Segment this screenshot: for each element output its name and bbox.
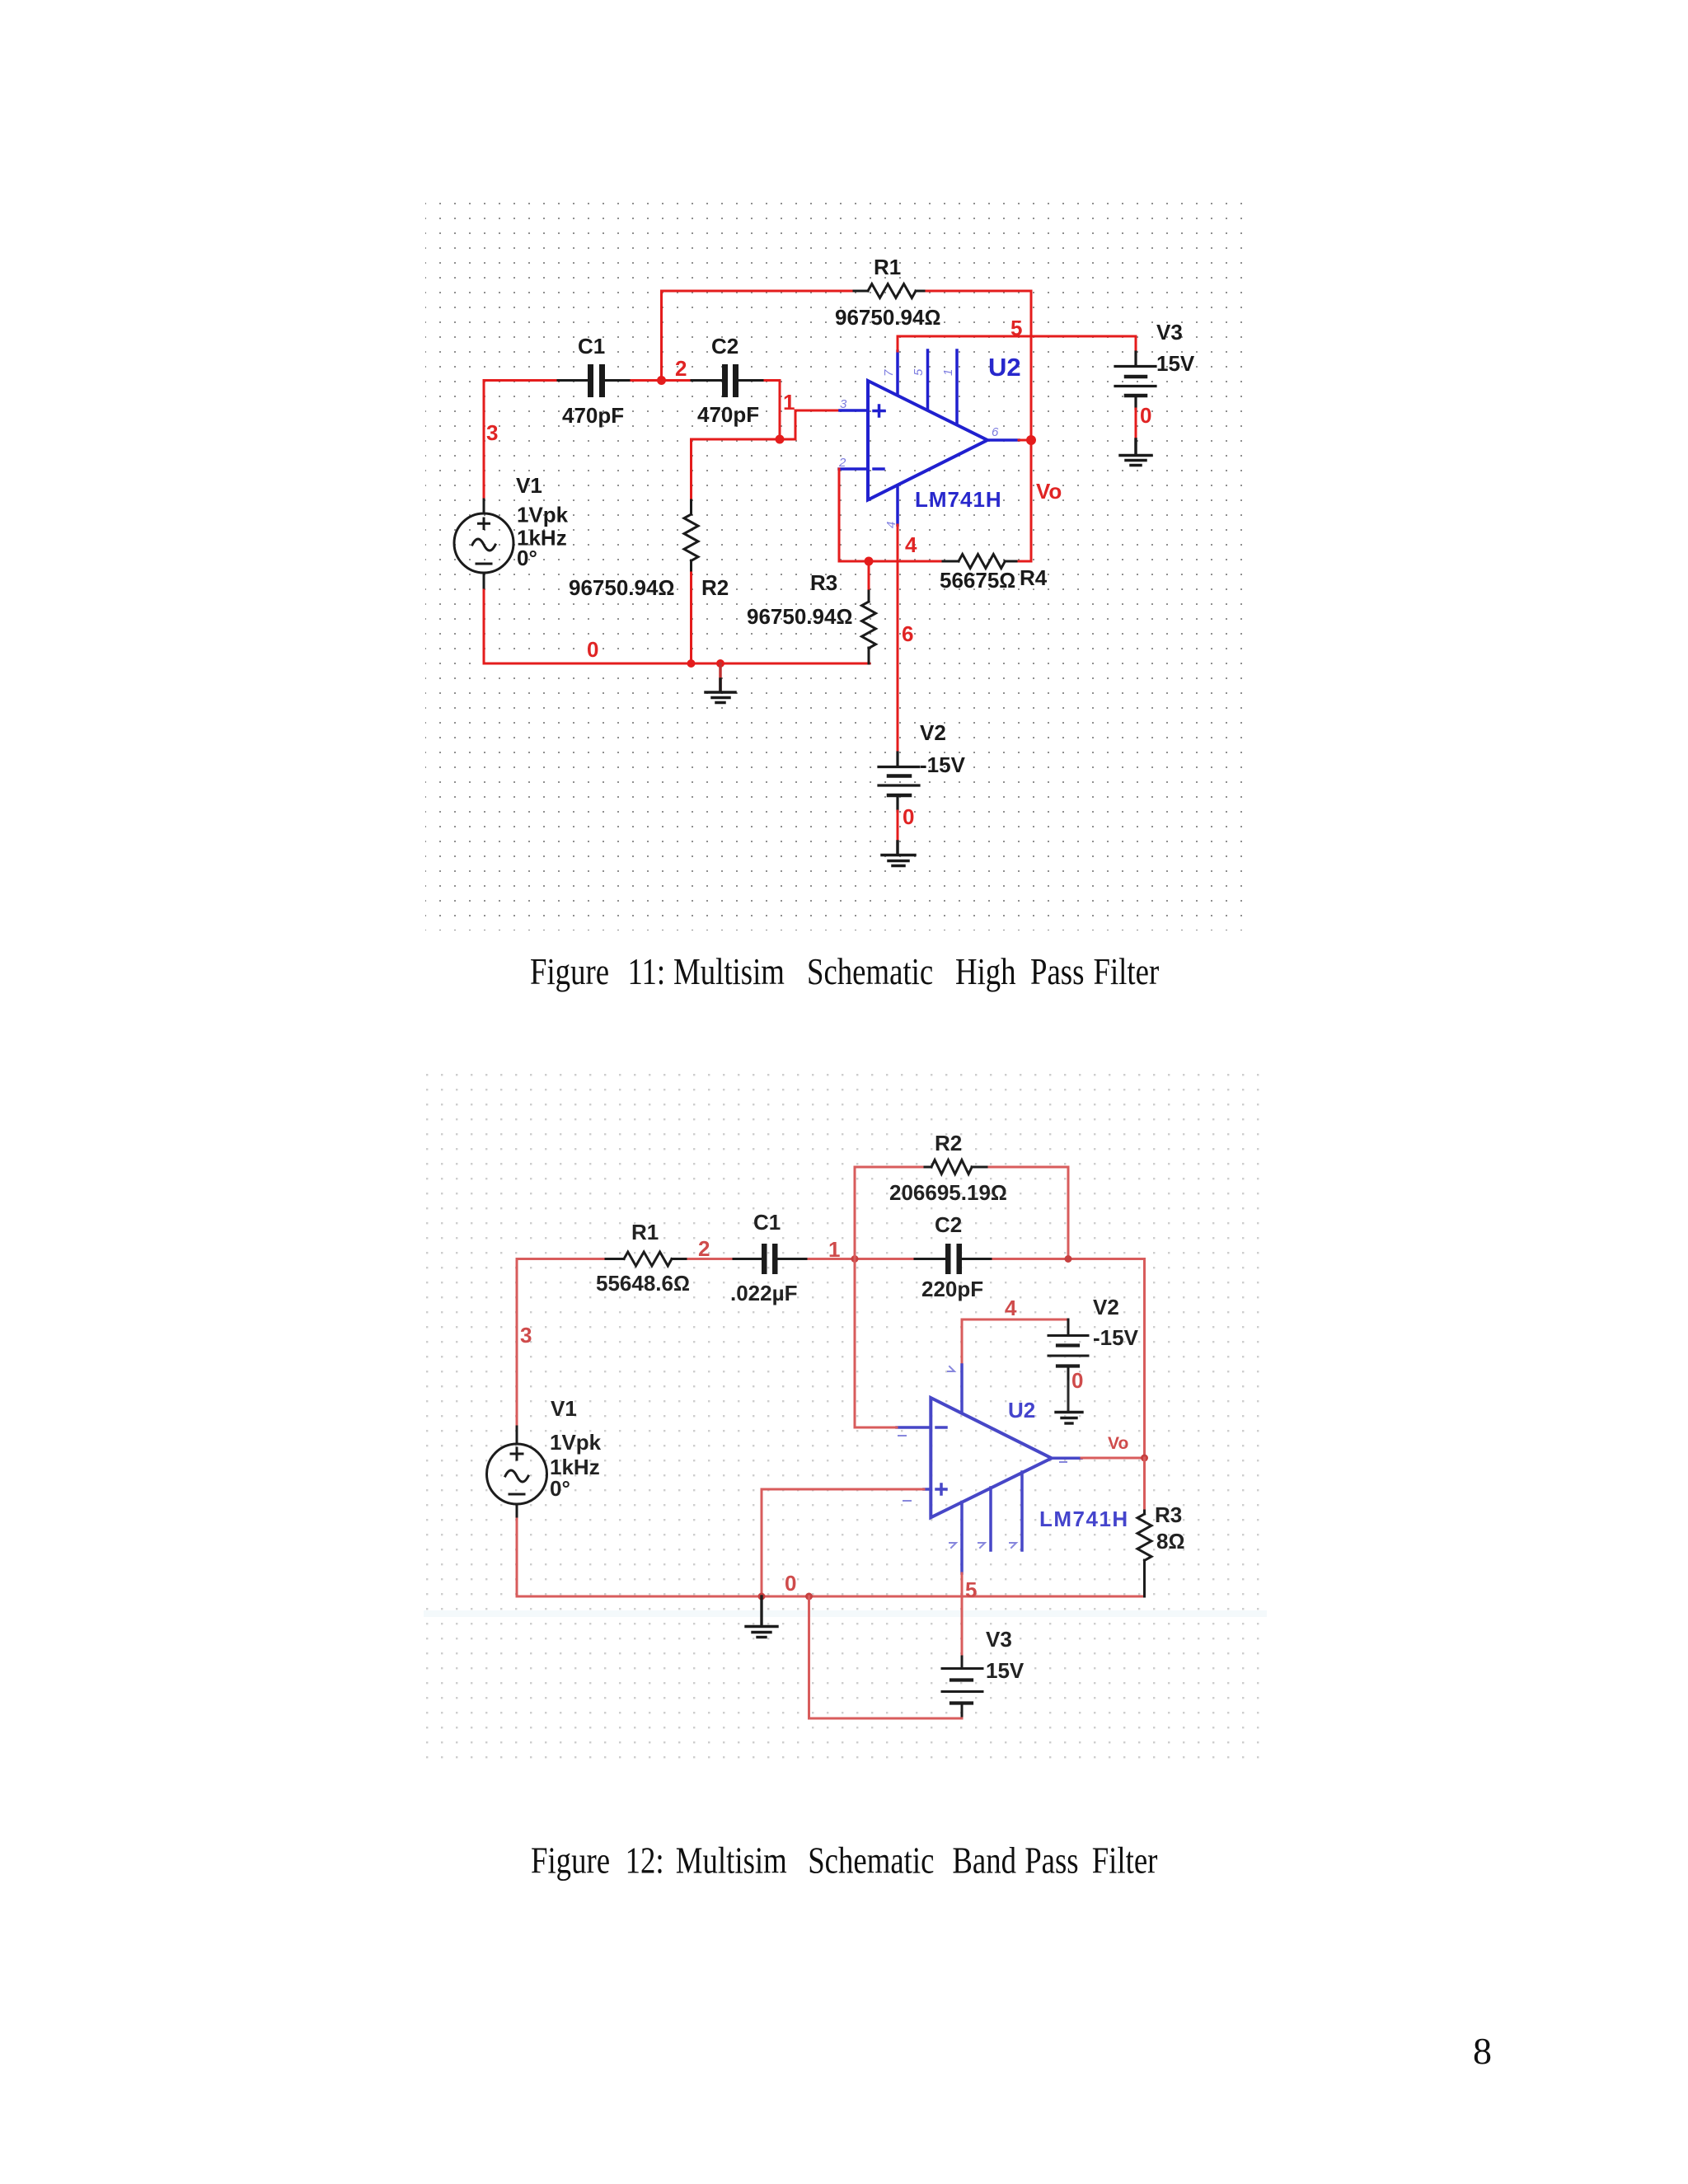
dotted grid background [424,1071,1267,1770]
svg-text:Filter: Filter [1094,951,1160,993]
wire R4 right to output column [1019,560,1031,563]
svg-text:6: 6 [992,425,999,439]
svg-text:7: 7 [882,369,896,377]
wire V1 bottom to net 0 [516,1519,518,1596]
pin hook plus [903,1500,911,1502]
svg-text:1Vpk: 1Vpk [550,1430,602,1455]
wire net 5 from R1 to output column [926,291,1031,561]
wire net 1 to R2 top [692,439,781,500]
svg-text:V3: V3 [1156,320,1183,344]
wire V2 bottom net 0 [897,811,899,841]
svg-text:3: 3 [486,420,498,445]
svg-text:Vo: Vo [1108,1434,1128,1453]
svg-text:Multisim: Multisim [676,1840,787,1882]
svg-text:0: 0 [785,1571,796,1596]
svg-text:5: 5 [965,1577,977,1602]
svg-text:Schematic: Schematic [808,1840,934,1882]
caption figure 12 [531,1840,1158,1882]
wire net 0 bottom rail [484,663,870,665]
svg-text:206695.19Ω: 206695.19Ω [889,1180,1007,1205]
svg-text:-15V: -15V [1093,1325,1139,1350]
svg-text:5: 5 [912,368,926,376]
battery V3 [942,1657,982,1718]
wire net 2 [688,1258,734,1260]
voltage source V1 [487,1427,547,1519]
ground symbol under V3 [1120,439,1151,466]
svg-text:R4: R4 [1020,565,1048,590]
wire net 3 top to R1 [517,1258,606,1260]
svg-text:1Vpk: 1Vpk [517,503,569,527]
wire output Vo [1081,1457,1145,1460]
capacitor C2 [692,364,765,397]
svg-text:Multisim: Multisim [673,951,785,993]
svg-text:Filter: Filter [1092,1840,1158,1882]
op-amp U2 [839,350,1019,525]
pin hook b3 [1010,1543,1016,1548]
wire net 1 drop to inverting input [855,1259,897,1428]
junction node 2 [657,376,666,385]
wire R2 right to corner [989,1167,1068,1259]
wire net 3 left rail [484,381,558,500]
resistor R3 [1137,1508,1151,1596]
pin hook b2 [978,1543,985,1548]
svg-text:470pF: 470pF [697,402,759,427]
svg-text:C1: C1 [578,334,605,359]
wire R2 bottom to net 0 [690,573,692,663]
svg-text:C2: C2 [711,334,738,359]
svg-text:C1: C1 [753,1210,781,1235]
svg-text:-15V: -15V [920,752,966,777]
ground symbol under V2 [882,841,915,866]
wire V3 bottom net 0 [1135,409,1137,439]
battery V2 [879,752,919,811]
battery V3 [1115,352,1156,409]
svg-text:Schematic: Schematic [807,951,933,993]
svg-text:1: 1 [941,369,955,376]
svg-text:8Ω: 8Ω [1156,1529,1184,1554]
pin hook b1 [949,1543,956,1548]
svg-text:0: 0 [1071,1368,1083,1393]
svg-text:3: 3 [840,397,847,411]
svg-text:R3: R3 [810,570,837,595]
wire net 1 right segment [993,1258,1145,1260]
voltage source V1 [454,499,513,588]
capacitor C1 [558,364,631,397]
svg-text:V1: V1 [551,1396,577,1421]
svg-text:R2: R2 [701,575,729,600]
svg-text:96750.94Ω: 96750.94Ω [569,575,674,600]
wire net 2 riser to R1 [662,291,855,381]
wire net 0 bottom rail [517,1596,1145,1598]
svg-text:4: 4 [905,532,917,557]
svg-text:V3: V3 [986,1627,1012,1652]
svg-text:High: High [955,951,1016,993]
pin hook output [1060,1461,1067,1463]
svg-text:Pass: Pass [1030,951,1084,993]
resistor R2 [684,500,698,573]
resistor R3 [862,588,876,663]
svg-text:55648.6Ω: 55648.6Ω [596,1271,690,1296]
wire net 2 inverting input drop [838,469,841,561]
capacitor C1 [734,1244,809,1274]
wire output red segment [1019,439,1031,442]
junction node 0 at ground [716,659,724,668]
svg-text:Figure: Figure [530,951,609,993]
svg-text:15V: 15V [1156,351,1195,376]
capacitor C2 [915,1244,993,1274]
svg-text:220pF: 220pF [921,1277,983,1301]
wire net 1 into junction [809,1258,915,1260]
junction Vo [1141,1455,1148,1462]
svg-text:6: 6 [902,621,913,646]
pin hook top [948,1366,954,1371]
svg-text:4: 4 [1005,1296,1017,1320]
wire net 5 supply rail to V3 [898,336,1136,352]
junction ground node [758,1593,766,1601]
svg-text:15V: 15V [986,1658,1025,1683]
wire net 4 horizontal [839,560,943,563]
junction node 1 [776,435,785,444]
svg-text:2: 2 [698,1236,710,1261]
svg-text:V1: V1 [516,473,542,498]
svg-text:0: 0 [587,637,598,662]
dotted grid background [425,200,1246,930]
faint artifact band [424,1610,1267,1617]
wire net 3 left rail [516,1259,518,1427]
svg-text:R2: R2 [935,1131,962,1155]
svg-text:2: 2 [675,356,687,381]
caption figure 11 [530,951,1159,993]
wire R3 top red [868,561,870,588]
wire net 1 from C2 to step [765,381,840,440]
svg-text:Figure: Figure [531,1840,610,1882]
wire net 5 from pin down to V3 [961,1573,964,1657]
junction node at C2 right [1065,1255,1072,1263]
resistor R1 [606,1252,688,1266]
svg-text:V2: V2 [1093,1295,1119,1319]
svg-text:R3: R3 [1155,1502,1182,1527]
resistor R2 [925,1160,989,1174]
svg-text:8: 8 [1473,2030,1492,2072]
wire net 3 V1 bottom to net 0 [483,588,485,663]
wire right rail down [1143,1259,1146,1459]
svg-text:0: 0 [1140,403,1151,428]
svg-text:LM741H: LM741H [915,487,1002,512]
svg-text:56675Ω: 56675Ω [940,568,1015,593]
svg-text:LM741H: LM741H [1039,1507,1129,1531]
svg-text:0°: 0° [550,1476,570,1501]
svg-text:96750.94Ω: 96750.94Ω [835,305,940,330]
battery V2 [1048,1319,1088,1381]
svg-text:4: 4 [884,522,898,528]
svg-text:U2: U2 [1008,1398,1035,1422]
resistor R1 [854,284,926,298]
svg-text:0: 0 [903,804,914,829]
op-amp U2 [897,1365,1081,1573]
svg-text:11:: 11: [628,951,666,993]
wire net 1 riser to R2 [855,1167,925,1259]
svg-text:1: 1 [828,1237,840,1262]
ground symbol net 0 [706,663,735,703]
resistor R4 [943,555,1019,569]
FIGURE 11 SCHEMATIC [425,200,1246,930]
junction node 1 [851,1255,859,1263]
junction node 4 [865,557,874,566]
wire pin4 drop net 6 [897,525,899,752]
svg-text:96750.94Ω: 96750.94Ω [747,604,852,629]
pin hook minus [898,1435,906,1436]
wire net 0 to plus input [762,1489,924,1596]
svg-text:R1: R1 [631,1220,659,1244]
wire net 2 [631,379,692,382]
ground symbol under V2 [1056,1413,1082,1424]
svg-text:.022µF: .022µF [730,1281,797,1305]
junction V3 return node [805,1593,813,1601]
svg-text:Vo: Vo [1036,479,1062,504]
svg-text:Pass: Pass [1025,1840,1078,1882]
wire V3 return loop [809,1596,963,1718]
wire pin7 stub [897,336,899,351]
svg-text:470pF: 470pF [562,403,624,428]
svg-text:0°: 0° [517,546,537,570]
junction output node [1026,435,1036,445]
ground symbol on rail [746,1596,777,1638]
svg-text:1: 1 [783,390,795,415]
wire V2 to ground [1067,1381,1070,1411]
FIGURE 12 SCHEMATIC [424,1071,1267,1770]
svg-text:R1: R1 [874,255,901,279]
svg-text:C2: C2 [935,1212,962,1237]
svg-text:12:: 12: [626,1840,664,1882]
wire net 4 supply [962,1319,1068,1365]
junction node 0 at R2 bottom [687,659,696,668]
svg-text:U2: U2 [988,353,1021,382]
svg-text:3: 3 [520,1323,532,1347]
svg-text:V2: V2 [920,720,946,745]
svg-text:2: 2 [838,456,846,470]
svg-text:Band: Band [952,1840,1016,1882]
wire R3 top red [1143,1458,1146,1508]
